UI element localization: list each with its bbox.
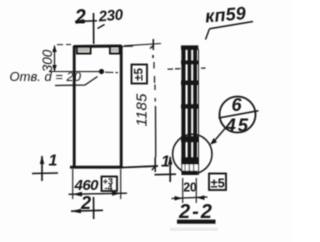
svg-text:1: 1 — [161, 154, 170, 171]
svg-text:45: 45 — [225, 115, 251, 136]
svg-text:-4: -4 — [105, 183, 113, 193]
svg-text:230: 230 — [97, 6, 124, 25]
svg-text:±5: ±5 — [134, 68, 146, 81]
svg-text:±5: ±5 — [211, 176, 225, 191]
svg-text:460: 460 — [74, 177, 100, 194]
svg-text:20: 20 — [183, 181, 197, 195]
svg-text:300: 300 — [40, 49, 55, 72]
svg-text:кп59: кп59 — [204, 3, 247, 26]
svg-text:2-2: 2-2 — [178, 201, 214, 223]
svg-text:6: 6 — [232, 95, 243, 115]
svg-text:1: 1 — [49, 153, 58, 170]
svg-text:1185: 1185 — [134, 93, 151, 127]
svg-text:2: 2 — [73, 6, 87, 29]
svg-text:2: 2 — [80, 193, 91, 213]
